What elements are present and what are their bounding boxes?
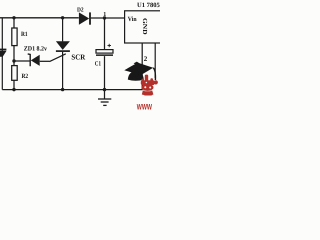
wire: left vertical rail — [1, 18, 3, 90]
wire: gate diagonal into SCR — [50, 54, 66, 62]
node: junction top rail / R1 branch — [12, 16, 15, 19]
svg-text:2: 2 — [144, 55, 148, 63]
diode D2 — [79, 12, 90, 24]
wire: ZD1 to gate — [40, 60, 50, 62]
node: junction top rail / SCR anode — [61, 16, 64, 19]
node: junction C1 / bottom rail — [103, 88, 106, 91]
svg-text:R2: R2 — [22, 73, 29, 80]
wire: to ZD1 anode — [14, 60, 30, 62]
node: junction top rail / C1 branch — [103, 16, 106, 19]
node: junction R1/R2/ZD1 — [12, 59, 15, 62]
svg-text:ZD1 8.2v: ZD1 8.2v — [24, 46, 48, 53]
op-amp U1 regulator box — [125, 11, 163, 43]
capacitor C1 — [96, 50, 113, 56]
wire: R2 bottom lead — [13, 80, 15, 89]
wire: R1 top lead — [13, 18, 15, 28]
zener diode ZD1 — [28, 54, 40, 66]
wire: SCR anode lead — [62, 18, 64, 42]
wire: top rail left segment — [0, 17, 79, 19]
ground — [98, 90, 111, 106]
watermark logo: graduation cap — [124, 62, 155, 81]
svg-text:C1: C1 — [95, 60, 101, 67]
wire: U1 GND pin 2 lead — [141, 43, 143, 90]
svg-text:WWW: WWW — [137, 102, 152, 110]
wire: U1 output pin lead — [154, 43, 156, 78]
label + polarity of C1 — [108, 44, 112, 47]
wire: SCR cathode lead — [62, 52, 64, 90]
diode D1 (cropped at left edge, on left rail) — [0, 49, 6, 57]
resistor R2 — [12, 66, 18, 81]
watermark seal texture holes — [144, 82, 151, 89]
svg-text:GND: GND — [141, 18, 148, 35]
wire: top rail right segment to U1 — [91, 17, 125, 19]
svg-text:Vin: Vin — [128, 16, 137, 23]
svg-text:SCR: SCR — [71, 53, 85, 62]
watermark logo: red seal characters — [141, 75, 158, 96]
node: junction R2 / bottom rail — [12, 88, 15, 91]
wire: R1 bottom lead — [13, 46, 15, 61]
background — [0, 0, 160, 110]
svg-text:R1: R1 — [21, 31, 28, 38]
wire: R2 top lead — [13, 61, 15, 66]
wire: C1 bottom lead — [104, 56, 106, 90]
wire: bottom rail — [2, 89, 142, 91]
resistor R1 — [12, 28, 17, 46]
svg-text:D2: D2 — [77, 7, 84, 14]
thyristor SCR — [56, 41, 70, 51]
node: junction SCR cathode / bottom rail — [61, 88, 64, 91]
svg-text:U1 7805: U1 7805 — [137, 2, 160, 9]
wire: C1 top lead — [104, 18, 106, 50]
